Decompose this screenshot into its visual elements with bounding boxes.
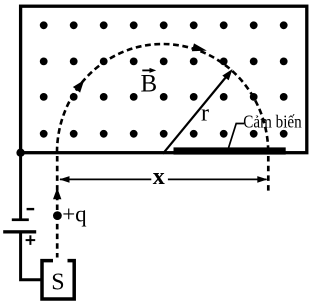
- velocity arrowhead on dashed line (pointing up): [53, 188, 61, 200]
- minus label: [27, 208, 35, 210]
- field dots grid: [40, 21, 288, 137]
- node at bottom-left corner: [16, 149, 24, 157]
- +q charge dot: [53, 211, 62, 220]
- right dashed vertical: [267, 156, 270, 192]
- svg-text:x: x: [153, 164, 165, 190]
- source box S (open top): [42, 261, 74, 299]
- x dimension line with arrows: [59, 176, 267, 183]
- battery positive plate (long): [3, 230, 36, 233]
- dashed trajectory semicircle: [57, 44, 268, 153]
- sensor bar: [174, 147, 286, 154]
- svg-text:r: r: [201, 101, 209, 127]
- left dashed vertical (particle path from source): [56, 156, 59, 258]
- svg-text:+q: +q: [62, 202, 87, 227]
- wire from node down to battery: [19, 153, 22, 219]
- svg-text:B: B: [141, 71, 158, 98]
- svg-text:S: S: [51, 269, 64, 295]
- sensor label "Cảm biến" with leader line: [229, 112, 302, 148]
- battery negative plate (short): [12, 218, 29, 221]
- trajectory arrowhead (top, pointing right): [192, 43, 207, 51]
- trajectory arrowhead (left, pointing up-right): [73, 80, 84, 93]
- magnetic field label B with vector arrow: [141, 68, 158, 98]
- svg-text:Cảm biến: Cảm biến: [243, 112, 301, 132]
- radius line r with arrowhead: [163, 69, 233, 154]
- wire from battery to source box: [21, 234, 42, 280]
- plus label: [26, 235, 36, 245]
- field region boundary: [21, 6, 307, 153]
